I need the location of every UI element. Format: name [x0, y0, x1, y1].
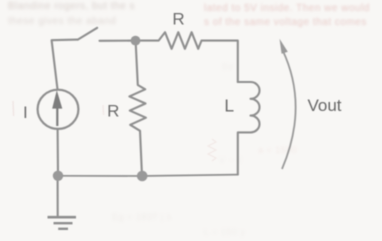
svg-text:I: I	[23, 103, 28, 122]
svg-text:R: R	[172, 10, 184, 29]
svg-text:Vout: Vout	[308, 96, 342, 115]
svg-text:R: R	[107, 102, 119, 121]
svg-text:L: L	[224, 96, 234, 116]
